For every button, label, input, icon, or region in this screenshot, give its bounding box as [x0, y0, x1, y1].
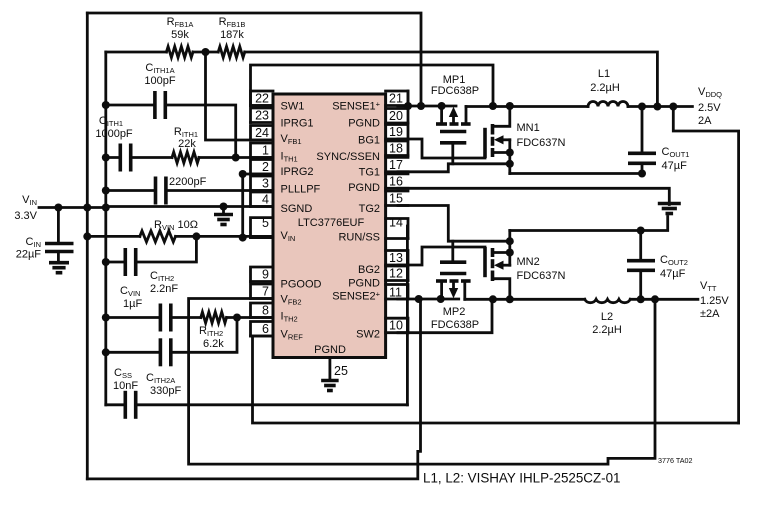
capacitor CITH2A 330pF [106, 351, 161, 354]
wire VIN top route to MP1 [87, 13, 421, 106]
wire VDDQ feedback sense [245, 52, 658, 107]
wire MN1 source to COUT1 [510, 172, 642, 175]
capacitor CSS 10nF [106, 403, 126, 406]
svg-text:L1: L1 [598, 68, 610, 80]
svg-text:PGND: PGND [348, 117, 380, 129]
wire VREF jog at VDDQ [673, 107, 738, 424]
wire PGND pin20 box riser to rail [407, 91, 410, 106]
wire VIN bottom route to MP2 rail [87, 299, 420, 479]
svg-text:330pF: 330pF [150, 385, 181, 397]
svg-text:TG2: TG2 [359, 203, 380, 215]
wire VFB1 tap [206, 52, 274, 140]
capacitor CITH2 2.2nF [106, 316, 161, 319]
wire TG1 to MP1 gate [398, 164, 510, 172]
ground SGND [222, 207, 225, 215]
wire SGND left bus [104, 52, 107, 405]
resistor RFB1A 59k [106, 51, 167, 54]
svg-text:MN1: MN1 [517, 122, 540, 134]
svg-text:IPRG2: IPRG2 [281, 166, 314, 178]
svg-text:14: 14 [389, 216, 403, 230]
svg-text:MN2: MN2 [517, 256, 540, 268]
svg-text:24: 24 [255, 126, 269, 140]
wire RUN/SS riser [406, 226, 409, 405]
svg-text:59k: 59k [171, 29, 189, 41]
capacitor COUT1 47uF [641, 107, 644, 154]
svg-text:L2: L2 [601, 311, 613, 323]
wire PGND pin16 to ground [398, 188, 669, 204]
svg-text:SGND: SGND [281, 203, 313, 215]
svg-text:FDC637N: FDC637N [517, 137, 566, 149]
wire SENSE2+ VIN rail ch2 [398, 298, 459, 301]
svg-text:47µF: 47µF [662, 160, 688, 172]
svg-text:LTC3776EUF: LTC3776EUF [298, 217, 365, 229]
node RFB divider junction [193, 51, 218, 54]
resistor RFB1B 187k [218, 47, 245, 58]
svg-text:8: 8 [262, 304, 269, 318]
svg-text:BG1: BG1 [358, 135, 380, 147]
svg-text:21: 21 [389, 92, 403, 106]
svg-text:2.2µH: 2.2µH [590, 82, 620, 94]
svg-text:100pF: 100pF [144, 75, 175, 87]
svg-text:3: 3 [262, 177, 269, 191]
wire VTT output rail [630, 298, 698, 301]
capacitor COUT2 47uF [639, 231, 642, 261]
inductor L2 2.2uH [585, 299, 631, 302]
svg-text:22: 22 [255, 92, 269, 106]
svg-text:10nF: 10nF [113, 380, 138, 392]
wire TG2 to MP2 gate [398, 206, 510, 242]
svg-text:2: 2 [262, 160, 269, 174]
wire SW2 pin10 route [398, 299, 492, 332]
svg-text:PLLLPF: PLLLPF [281, 183, 321, 195]
svg-text:FDC638P: FDC638P [431, 319, 479, 331]
svg-text:2.2µH: 2.2µH [592, 324, 622, 336]
wire VDDQ output rail [628, 105, 692, 108]
svg-text:6.2k: 6.2k [203, 338, 224, 350]
svg-text:FDC638P: FDC638P [431, 85, 479, 97]
svg-text:23: 23 [255, 109, 269, 123]
svg-text:15: 15 [389, 192, 403, 206]
wire VIN left vertical bus [86, 13, 89, 479]
svg-text:RUN/SS: RUN/SS [338, 232, 380, 244]
svg-text:SENSE2+: SENSE2+ [332, 290, 380, 303]
svg-text:IPRG1: IPRG1 [281, 117, 314, 129]
svg-text:12: 12 [389, 267, 403, 281]
svg-text:2200pF: 2200pF [169, 176, 207, 188]
resistor RITH2 6.2k [171, 316, 201, 319]
svg-text:25: 25 [334, 364, 348, 378]
IC U1 LTC3776EUF [273, 94, 386, 358]
svg-text:1.25V: 1.25V [700, 295, 729, 307]
ground ch1 output [658, 202, 681, 206]
svg-text:2A: 2A [698, 115, 712, 127]
svg-text:TG1: TG1 [359, 167, 380, 179]
wire SW1 pin22 route [251, 65, 494, 106]
svg-text:6: 6 [262, 322, 269, 336]
wire BG2 to MN2 gate [398, 247, 485, 265]
wire VREF route to VDDQ [253, 336, 739, 423]
ground pin 25 [321, 379, 339, 383]
capacitor CVIN 1uF [106, 261, 126, 264]
svg-text:PGND: PGND [314, 344, 346, 356]
svg-text:7: 7 [262, 285, 269, 299]
svg-text:FDC637N: FDC637N [517, 270, 566, 282]
capacitor CITH1 1000pF [106, 156, 121, 159]
svg-text:2.2nF: 2.2nF [150, 283, 178, 295]
transistor MP1 FDC638P [436, 106, 471, 143]
wire SGND pin4 [106, 205, 273, 208]
svg-text:1000pF: 1000pF [95, 128, 133, 140]
transistor MN1 FDC637N [485, 106, 514, 174]
wire SW2 node rail ch2 [465, 298, 585, 301]
svg-text:20: 20 [389, 109, 403, 123]
svg-text:BG2: BG2 [358, 264, 380, 276]
svg-text:SW2: SW2 [356, 329, 380, 341]
svg-text:1: 1 [262, 144, 269, 158]
svg-text:17: 17 [389, 158, 403, 172]
svg-text:22µF: 22µF [16, 249, 42, 261]
inductor L1 2.2uH [588, 102, 628, 107]
svg-text:SW1: SW1 [281, 101, 305, 113]
svg-text:±2A: ±2A [700, 308, 720, 320]
svg-text:187k: 187k [220, 29, 244, 41]
svg-text:L1, L2: VISHAY IHLP-2525CZ-01: L1, L2: VISHAY IHLP-2525CZ-01 [423, 471, 621, 486]
capacitor 2200pF PLLLPF [106, 189, 156, 192]
wire IPRG2 to VIN pin [243, 173, 273, 176]
transistor MP2 FDC638P [436, 262, 471, 299]
svg-text:3776 TA02: 3776 TA02 [658, 456, 693, 465]
svg-text:16: 16 [389, 174, 403, 188]
svg-text:22k: 22k [178, 138, 196, 150]
svg-text:SYNC/SSEN: SYNC/SSEN [316, 151, 380, 163]
pin 25 PGND stub [328, 358, 331, 381]
svg-text:MP2: MP2 [443, 306, 466, 318]
svg-text:10: 10 [389, 319, 403, 333]
svg-text:13: 13 [389, 251, 403, 265]
wire BG1 to MN1 gate [398, 139, 485, 158]
svg-text:PGOOD: PGOOD [281, 279, 322, 291]
svg-text:2.5V: 2.5V [698, 102, 721, 114]
wire VFB2 route to VTT [189, 299, 655, 465]
ground CIN [49, 261, 69, 265]
capacitor CITH1A 100pF [106, 104, 155, 107]
wire SW1 node rail ch1 [466, 105, 588, 108]
svg-text:3.3V: 3.3V [14, 210, 37, 222]
transistor MN2 FDC637N [485, 231, 514, 300]
svg-text:SENSE1+: SENSE1+ [332, 100, 380, 113]
svg-text:19: 19 [389, 125, 403, 139]
resistor RITH1 22k [131, 156, 172, 159]
node left pin boxes [251, 91, 274, 106]
svg-text:9: 9 [262, 268, 269, 282]
wire SENSE1+ VIN rail ch1 [398, 105, 456, 108]
svg-text:11: 11 [389, 286, 402, 300]
svg-text:RVIN 10Ω: RVIN 10Ω [154, 219, 198, 232]
svg-text:18: 18 [389, 142, 403, 156]
resistor RVIN 10 ohm [87, 235, 140, 238]
wire MN2 source to COUT2 and ground [510, 217, 668, 231]
svg-text:1µF: 1µF [123, 298, 142, 310]
svg-text:4: 4 [262, 193, 269, 207]
svg-text:5: 5 [262, 216, 269, 230]
svg-text:PGND: PGND [348, 277, 380, 289]
svg-text:PGND: PGND [348, 182, 380, 194]
wire VIN input [39, 206, 106, 209]
capacitor CIN [45, 242, 74, 246]
svg-text:47µF: 47µF [660, 268, 686, 280]
